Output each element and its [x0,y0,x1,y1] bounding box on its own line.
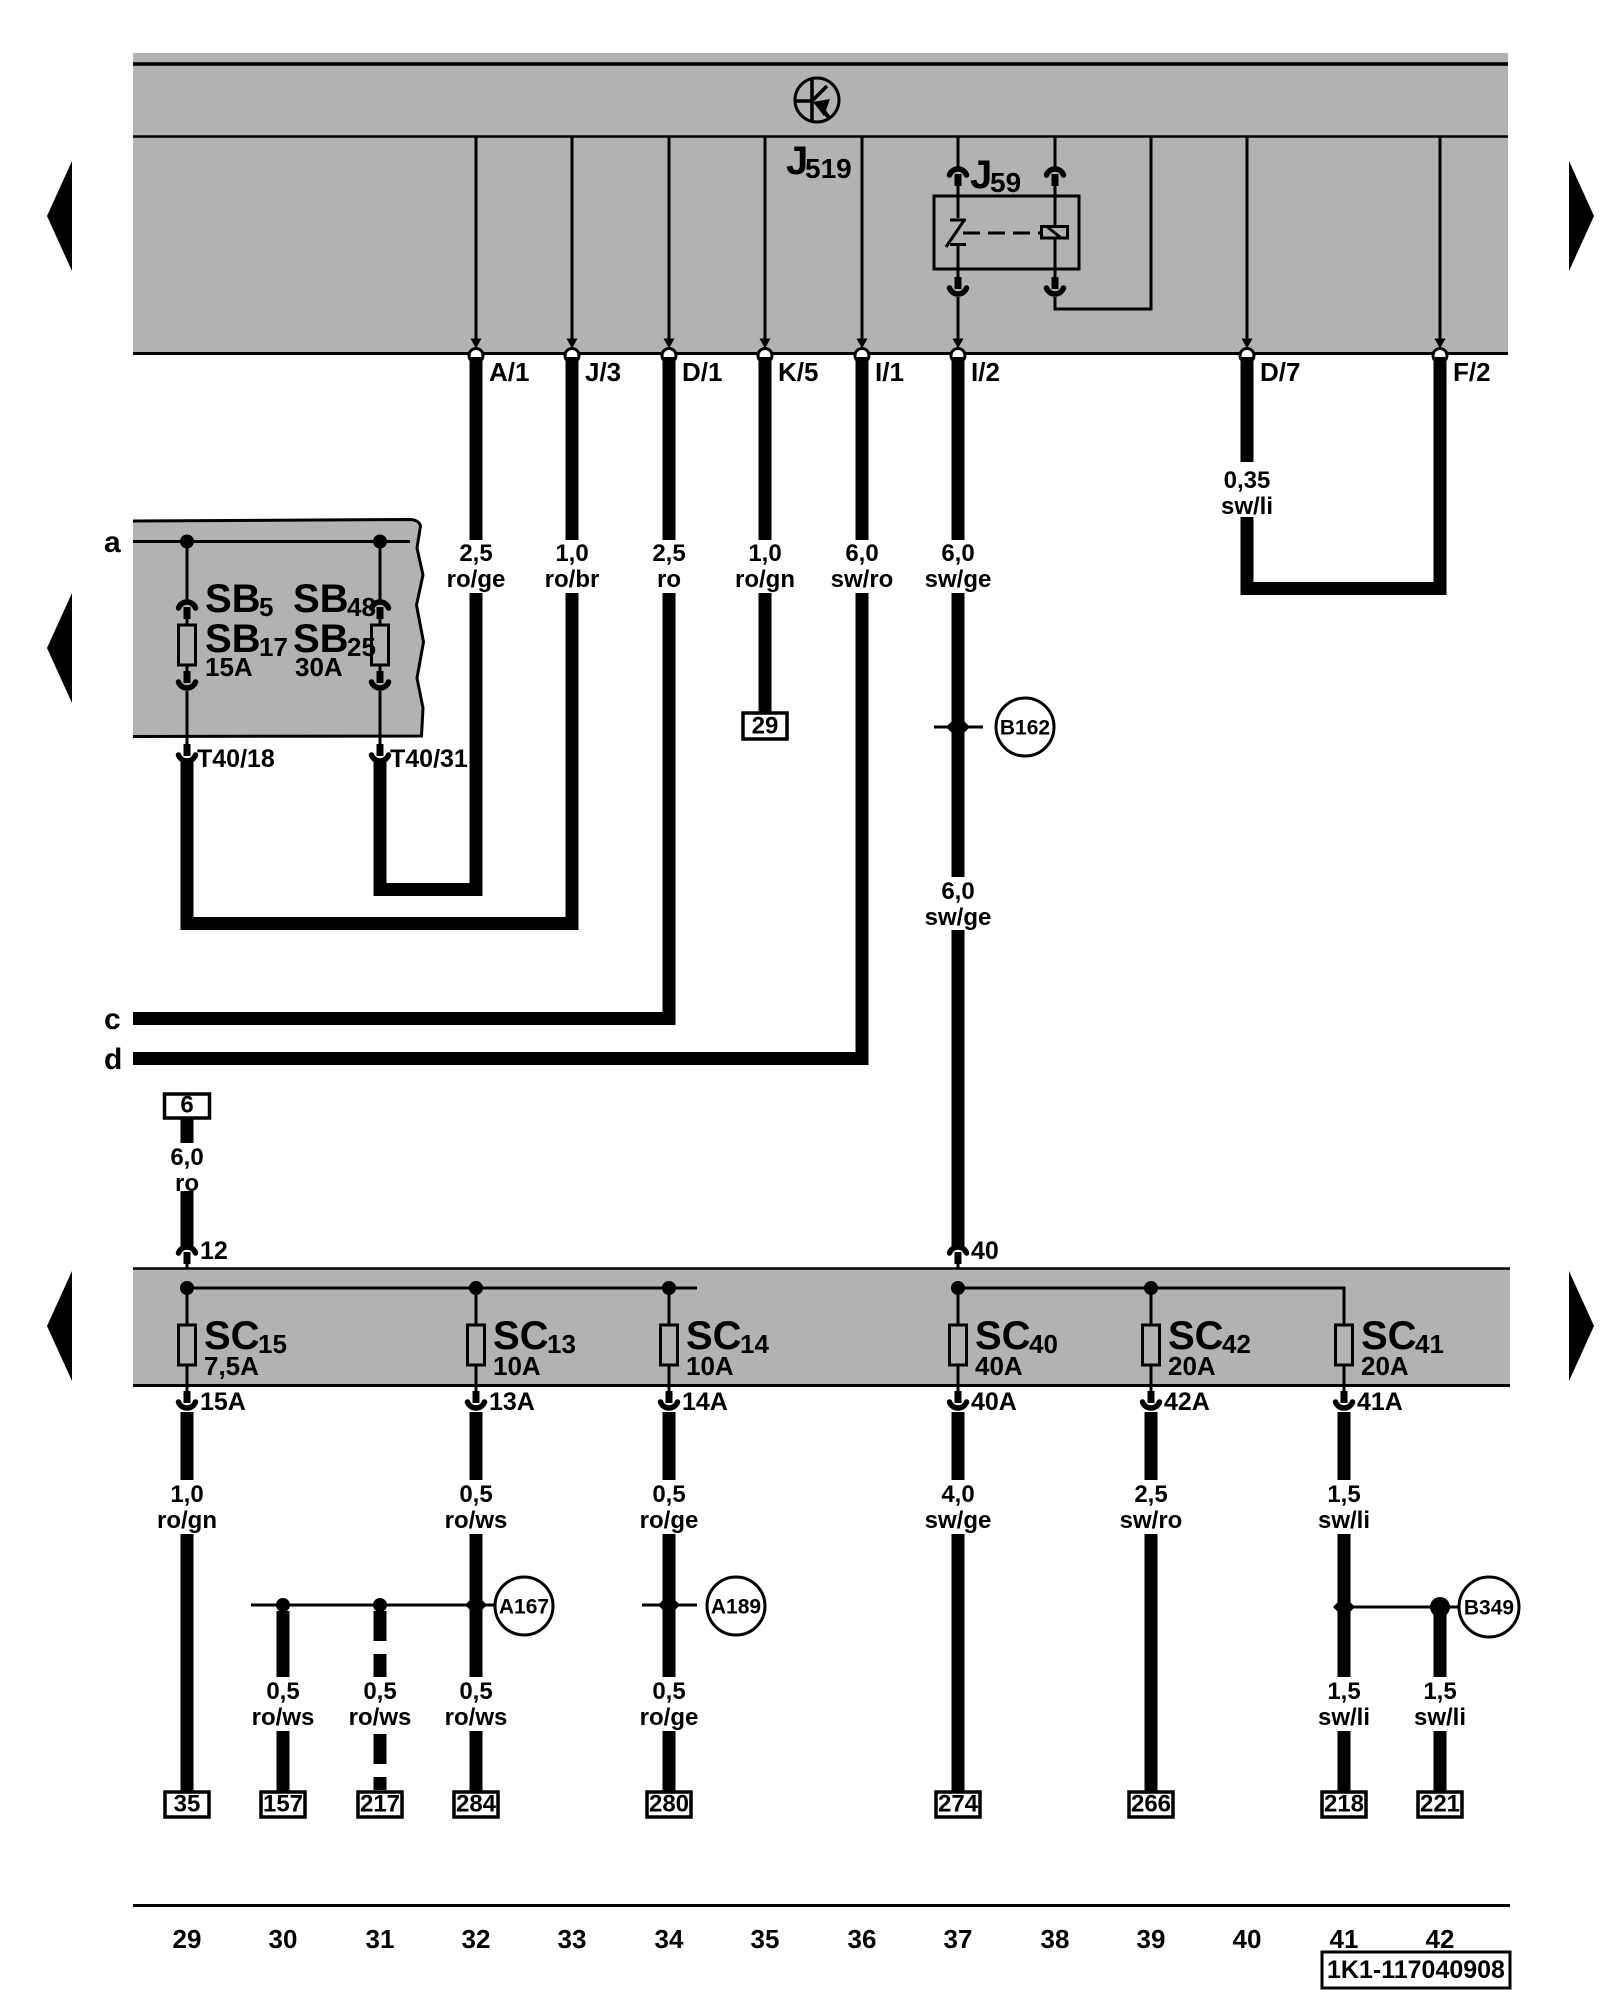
svg-text:42: 42 [1222,1329,1251,1359]
fuse SC13 [468,1325,485,1365]
connector bushing I/1 [855,349,869,363]
terminal 42A plug arrow [1143,1391,1160,1408]
svg-text:B349: B349 [1464,1597,1514,1620]
wire 1,5 sw/li middle [1338,1534,1351,1677]
label J59 [970,153,1021,198]
svg-text:I/1: I/1 [875,357,904,387]
svg-text:ro/br: ro/br [545,566,600,593]
wire J/3 1.0 ro/br upper [566,357,579,540]
lower band bottom border [133,1384,1510,1387]
terminal box 274 [936,1792,980,1817]
connector bushing D/1 [662,349,676,363]
wire bus to fuse SC41 [1343,1288,1346,1325]
label SB5 [205,577,273,622]
svg-text:ro/ge: ro/ge [640,1704,699,1731]
svg-text:40: 40 [1029,1329,1058,1359]
svg-text:1,0: 1,0 [748,540,781,567]
svg-text:157: 157 [263,1791,303,1818]
svg-text:30: 30 [269,1924,298,1954]
svg-text:33: 33 [558,1924,587,1954]
svg-text:T40/18: T40/18 [197,745,275,773]
svg-text:35: 35 [751,1924,780,1954]
wire 2,5 sw/ro upper [1145,1412,1158,1480]
svg-text:42A: 42A [1164,1388,1210,1416]
svg-text:ro/ws: ro/ws [445,1507,508,1534]
wire bus to fuse SC42 [1150,1288,1153,1325]
wire K/5 lower to terminal 29 [759,593,772,714]
svg-text:ro: ro [657,566,681,593]
fuse SB48/SB25 [372,619,389,672]
svg-text:6,0: 6,0 [941,878,974,905]
wire 4,0 sw/ge upper [952,1412,965,1480]
node A189 circle [707,1577,765,1635]
svg-text:41A: 41A [1357,1388,1403,1416]
wire pin D/1 inside band [668,137,671,344]
svg-text:38: 38 [1041,1924,1070,1954]
wire 2,5 sw/ro lower [1145,1534,1158,1792]
terminal 40A plug arrow [950,1391,967,1408]
svg-text:SB: SB [205,577,261,621]
svg-text:266: 266 [1131,1791,1171,1818]
relay switch contact [946,219,966,268]
connector bushing A/1 [469,349,483,363]
fuse top plug arrow SB48/SB25 [372,602,389,619]
wire 157 lower [277,1731,290,1792]
relay pin 1 plug arrow [950,169,967,186]
connector bushing J/3 [565,349,579,363]
bus junction dot SC15 [180,1281,194,1295]
svg-text:a: a [104,526,121,559]
svg-text:12: 12 [200,1237,228,1265]
wire I/2 middle [952,593,965,877]
wire bus to fuse SC15 [186,1288,189,1325]
fuse panel SB border [133,520,424,737]
bus junction dot SC14 [662,1281,676,1295]
svg-text:280: 280 [649,1791,689,1818]
wire 1,0 ro/gn upper [181,1412,194,1480]
svg-text:SB: SB [293,577,349,621]
svg-text:39: 39 [1137,1924,1166,1954]
fuse SB5/SB17 [179,619,196,672]
relay pin 2 top wire [1054,137,1057,169]
svg-text:42: 42 [1426,1924,1455,1954]
wire 1,0 ro/gn lower [181,1534,194,1792]
svg-text:ro/ws: ro/ws [349,1704,412,1731]
svg-text:15: 15 [258,1329,287,1359]
label SC13 [493,1314,576,1359]
left direction arrow middle [47,593,72,703]
relay pin 2 loop wire to rail [1055,137,1151,309]
wire 0,5 ro/ws upper [470,1412,483,1480]
svg-text:D/1: D/1 [682,357,722,387]
wire fuse SC14 to band exit [668,1365,671,1392]
fuse SC15 [179,1325,196,1365]
svg-text:41: 41 [1415,1329,1444,1359]
relay pin 2 plug arrow [1047,169,1064,186]
right direction arrow bottom [1569,1271,1594,1381]
node B162 branch line [934,726,983,729]
fuse SC41 [1336,1325,1353,1365]
wire D/1 lower to node c [663,593,676,1019]
svg-text:20A: 20A [1168,1351,1216,1381]
left direction arrow bottom [47,1271,72,1381]
terminal box 35 [165,1792,209,1817]
lower band top border [133,1267,1510,1270]
svg-text:1,5: 1,5 [1327,1678,1360,1705]
node A167 junction dot 157 [276,1598,290,1612]
node B349 circle [1459,1577,1519,1637]
left direction arrow top [47,161,72,271]
terminal T40 plug arrow SB48/SB25 [372,744,389,761]
svg-text:2,5: 2,5 [652,540,685,567]
label SB48 [293,577,376,622]
svg-text:20A: 20A [1361,1351,1409,1381]
node B349 junction dot 221 [1430,1597,1450,1617]
bus elbow to SC41 [1343,1288,1346,1325]
terminal box 284 [454,1792,498,1817]
bus junction dot SC13 [469,1281,483,1295]
svg-text:A/1: A/1 [489,357,529,387]
band bottom border line [133,352,1508,355]
svg-text:sw/ge: sw/ge [925,1507,992,1534]
relay J59 outline box [934,196,1079,269]
lower band bus rail right [958,1287,1346,1290]
wire I/2 lower to terminal 40 [952,930,965,1246]
wire fuse SC41 to band exit [1343,1365,1346,1392]
label SB25 [293,617,376,662]
relay pin 1 top wire [957,137,960,169]
relay pin 1 wire to band exit [957,297,960,344]
band inner rail line [133,135,1508,138]
terminal box 29 [743,713,787,739]
svg-text:c: c [104,1003,121,1036]
fuse SC40 [950,1325,967,1365]
wire c horizontal [133,1012,676,1025]
svg-text:6: 6 [180,1092,193,1119]
svg-text:2,5: 2,5 [1134,1481,1167,1508]
wire D/1 2.5 ro upper [663,357,676,540]
svg-text:29: 29 [173,1924,202,1954]
svg-text:4,0: 4,0 [941,1481,974,1508]
label J519 [786,139,852,184]
wire D/7 lower loop to F/2 [1247,357,1440,589]
terminal 14A plug arrow [661,1391,678,1408]
fuse top plug arrow SB5/SB17 [179,602,196,619]
terminal box 221 [1418,1792,1462,1817]
wire bus to fuse SC40 [957,1288,960,1325]
wire I/2 6.0 sw/ge upper [952,357,965,540]
wire d horizontal [133,1052,869,1065]
terminal 41A plug arrow [1336,1391,1353,1408]
junction dot a-SB48 [373,535,387,549]
wire A/1 2.5 ro/ge upper [470,357,483,540]
bus junction dot SC42 [1144,1281,1158,1295]
label SC15 [204,1314,287,1359]
wire 0,5 ro/ge upper [663,1412,676,1480]
svg-text:36: 36 [848,1924,877,1954]
fuse SC14 [661,1325,678,1365]
svg-text:A167: A167 [499,1596,549,1619]
svg-text:2,5: 2,5 [459,540,492,567]
svg-text:35: 35 [174,1791,201,1818]
wire K/5 1.0 ro/gn upper [759,357,772,540]
lower band bus rail left [187,1287,697,1290]
wire 1,5 sw/li upper [1338,1412,1351,1480]
terminal 13A plug arrow [468,1391,485,1408]
node B162 junction dot [946,715,970,739]
svg-text:0,5: 0,5 [459,1481,492,1508]
svg-text:40A: 40A [971,1388,1017,1416]
svg-text:ro/ws: ro/ws [252,1704,315,1731]
wire pin K/5 inside band [764,137,767,344]
wire to T40 SB5/SB17 [186,691,189,744]
svg-text:ro/ws: ro/ws [445,1704,508,1731]
connector bushing I/2 [951,349,965,363]
svg-text:31: 31 [366,1924,395,1954]
svg-text:59: 59 [990,167,1021,198]
svg-text:0,5: 0,5 [652,1481,685,1508]
svg-text:40A: 40A [975,1351,1023,1381]
junction dot a-SB5 [180,535,194,549]
svg-text:1K1-117040908: 1K1-117040908 [1327,1956,1505,1984]
band top border line [133,62,1508,66]
wire fuse SC42 to band exit [1150,1365,1153,1392]
svg-text:34: 34 [655,1924,684,1954]
label SC41 [1361,1314,1444,1359]
svg-text:D/7: D/7 [1260,357,1300,387]
fuse bottom plug arrow SB48/SB25 [372,671,389,688]
wire pin J/3 inside band [571,137,574,344]
relay coil [1042,227,1068,239]
svg-text:J/3: J/3 [585,357,621,387]
wire 4,0 sw/ge lower [952,1534,965,1792]
wire A/1 lower to T40/31 loop [380,593,476,890]
control module J519 dash panel insert gray band [133,53,1508,354]
node A189 junction dot [658,1594,680,1616]
svg-text:15A: 15A [205,652,253,682]
label SC42 [1168,1314,1251,1359]
svg-text:0,35: 0,35 [1224,467,1271,494]
wire 217 dashed upper [374,1611,387,1677]
wire D/7 0.35 sw/li upper [1241,357,1254,462]
node B162 circle [996,698,1054,756]
svg-text:ro/ge: ro/ge [640,1507,699,1534]
terminal box 6 [165,1094,210,1118]
svg-text:37: 37 [944,1924,973,1954]
wire pin I/1 inside band [861,137,864,344]
svg-text:14: 14 [740,1329,769,1359]
node A189 branch line [642,1604,697,1607]
svg-text:sw/li: sw/li [1414,1704,1466,1731]
svg-text:1,5: 1,5 [1423,1678,1456,1705]
svg-text:sw/li: sw/li [1318,1704,1370,1731]
svg-text:B162: B162 [1000,717,1050,740]
svg-text:32: 32 [462,1924,491,1954]
svg-text:13: 13 [547,1329,576,1359]
node A167 branch line [251,1604,496,1607]
wire 0,5 ro/ge middle [663,1534,676,1677]
label SC40 [975,1314,1058,1359]
svg-text:K/5: K/5 [778,357,818,387]
node A167 junction dot 217 [373,1598,387,1612]
svg-text:17: 17 [259,632,288,662]
svg-text:0,5: 0,5 [266,1678,299,1705]
wire pin A/1 inside band [475,137,478,344]
terminal 15A plug arrow [179,1391,196,1408]
bottom track rule [133,1904,1510,1907]
svg-text:sw/ge: sw/ge [925,566,992,593]
wire from a to fuse SB5/SB17 [186,541,189,602]
svg-text:218: 218 [1324,1791,1364,1818]
relay pin 2 wire through box [1054,186,1057,227]
svg-text:ro/gn: ro/gn [735,566,795,593]
svg-text:5: 5 [259,592,273,622]
node B349 branch line [1344,1606,1460,1609]
relay pin 2 bottom wire [1054,268,1057,278]
svg-text:J: J [970,153,992,197]
data bus / K symbol [795,78,839,122]
wire 6.0 ro upper [181,1118,194,1143]
svg-text:1,0: 1,0 [170,1481,203,1508]
wire 221 upper [1434,1612,1447,1677]
svg-text:I/2: I/2 [971,357,1000,387]
svg-text:d: d [104,1043,122,1076]
relay pin 1 wire into box [957,186,960,218]
svg-text:274: 274 [938,1791,979,1818]
relay coil link dashed [963,232,1040,235]
wire pin F/2 inside band [1439,137,1442,344]
svg-text:0,5: 0,5 [363,1678,396,1705]
svg-text:6,0: 6,0 [170,1144,203,1171]
connector bushing D/7 [1240,349,1254,363]
svg-text:7,5A: 7,5A [204,1351,259,1381]
svg-text:15A: 15A [200,1388,246,1416]
svg-text:6,0: 6,0 [941,540,974,567]
svg-text:519: 519 [805,153,852,184]
svg-text:sw/ge: sw/ge [925,904,992,931]
svg-text:10A: 10A [686,1351,734,1381]
terminal T40 plug arrow SB5/SB17 [179,744,196,761]
svg-text:29: 29 [752,713,779,740]
svg-text:1,0: 1,0 [555,540,588,567]
diagram code box [1322,1952,1510,1988]
node a rail line [133,540,410,543]
svg-text:25: 25 [347,632,376,662]
connector bushing F/2 [1433,349,1447,363]
terminal 40 plug arrow [950,1247,967,1264]
relay pin 1 bottom plug arrow [950,277,967,294]
label SC14 [686,1314,769,1359]
svg-text:40: 40 [1233,1924,1262,1954]
connector bushing K/5 [758,349,772,363]
wire 157 upper [277,1611,290,1677]
wire J/3 lower to T40/18 loop [187,593,572,924]
wire I/1 lower to node d [856,593,869,1059]
svg-text:40: 40 [971,1237,999,1265]
svg-text:0,5: 0,5 [652,1678,685,1705]
fuse panel SB gray box [133,520,424,737]
svg-text:A189: A189 [711,1596,761,1619]
wire 221 lower [1434,1731,1447,1792]
track numbers 29-42 [173,1924,1455,1954]
svg-text:ro/gn: ro/gn [157,1507,217,1534]
fuse panel SC gray band [133,1268,1510,1386]
wire pin D/7 inside band [1246,137,1249,344]
terminal box 217 [358,1792,402,1817]
svg-text:284: 284 [456,1791,497,1818]
svg-text:30A: 30A [295,652,343,682]
svg-text:ro/ge: ro/ge [447,566,506,593]
relay pin 2 bottom plug arrow [1047,277,1064,294]
wire 40 into band [957,1263,960,1288]
svg-text:T40/31: T40/31 [390,745,468,773]
svg-text:14A: 14A [682,1388,728,1416]
svg-text:13A: 13A [489,1388,535,1416]
svg-text:48: 48 [347,592,376,622]
wire 6.0 ro lower [181,1191,194,1246]
svg-text:sw/li: sw/li [1221,493,1273,520]
fuse SC42 [1143,1325,1160,1365]
wire bus to fuse SC14 [668,1288,671,1325]
svg-text:0,5: 0,5 [459,1678,492,1705]
node B349 junction dot main [1333,1596,1355,1618]
svg-text:217: 217 [360,1791,400,1818]
wire I/1 6.0 sw/ro upper [856,357,869,540]
svg-text:6,0: 6,0 [845,540,878,567]
wire fuse SC15 to band exit [186,1365,189,1392]
terminal box 157 [261,1792,305,1817]
right direction arrow top [1569,161,1594,271]
wire fuse SC40 to band exit [957,1365,960,1392]
wire 0,5 ro/ws lower [470,1731,483,1792]
svg-text:F/2: F/2 [1453,357,1491,387]
terminal box 266 [1129,1792,1173,1817]
svg-text:10A: 10A [493,1351,541,1381]
svg-text:sw/li: sw/li [1318,1507,1370,1534]
fuse bottom plug arrow SB5/SB17 [179,671,196,688]
wire 0,5 ro/ws middle [470,1534,483,1677]
svg-text:sw/ro: sw/ro [1120,1507,1183,1534]
label SB17 [205,617,288,662]
node A167 junction dot main [465,1594,487,1616]
wire 1,5 sw/li lower [1338,1731,1351,1792]
relay pin 1 bottom wire [957,268,960,278]
wire 12 into band [186,1263,189,1288]
wire 217 dashed lower [374,1734,387,1790]
svg-text:1,5: 1,5 [1327,1481,1360,1508]
terminal box 280 [647,1792,691,1817]
wire bus to fuse SC13 [475,1288,478,1325]
wire fuse SC13 to band exit [475,1365,478,1392]
terminal box 218 [1322,1792,1366,1817]
bus junction dot SC40 [951,1281,965,1295]
terminal 12 plug arrow [179,1247,196,1264]
wire 0,5 ro/ge lower [663,1731,676,1792]
wire to T40 SB48/SB25 [379,691,382,744]
svg-text:sw/ro: sw/ro [831,566,894,593]
node A167 circle [495,1577,553,1635]
svg-text:41: 41 [1330,1924,1359,1954]
svg-text:221: 221 [1420,1791,1460,1818]
wire from a to fuse SB48/SB25 [379,541,382,602]
